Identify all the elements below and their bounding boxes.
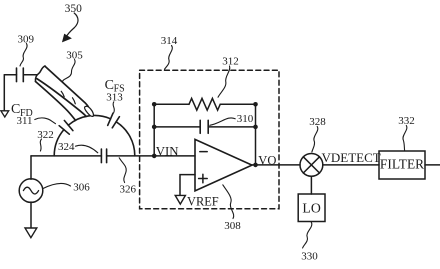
- leader 306: [43, 183, 71, 188]
- ground (open arrow) at left, node for C_FD: [1, 111, 9, 117]
- svg-text:328: 328: [309, 116, 326, 128]
- svg-text:305: 305: [66, 49, 83, 61]
- feedback left rail: [153, 104, 155, 156]
- svg-text:309: 309: [17, 34, 34, 46]
- svg-text:FILTER: FILTER: [380, 157, 424, 172]
- svg-text:VIN: VIN: [156, 144, 179, 158]
- wire main input line right segment: [107, 155, 195, 157]
- wire from AC source to ground: [30, 202, 32, 228]
- LO box 330: [298, 194, 325, 222]
- junction node, capacitor rail left: [152, 125, 157, 130]
- svg-text:306: 306: [73, 181, 90, 193]
- svg-text:C: C: [105, 78, 114, 93]
- svg-text:330: 330: [301, 251, 318, 263]
- junction node, resistor top-left: [152, 102, 157, 107]
- svg-text:VO: VO: [258, 154, 276, 168]
- svg-text:313: 313: [106, 92, 123, 104]
- wire op-amp output to mixer: [252, 164, 300, 166]
- leader 309: [20, 44, 27, 67]
- FILTER box 332: [379, 151, 425, 179]
- leader 313: [113, 102, 114, 113]
- resistor 312 top rail + zigzag: [154, 98, 255, 110]
- capacitor 324: [101, 149, 106, 163]
- finger 305: [35, 66, 93, 120]
- svg-text:LO: LO: [302, 201, 320, 216]
- op-amp 308: [195, 139, 252, 191]
- leader 308: [223, 185, 234, 219]
- leader 328: [312, 127, 318, 153]
- junction node VO: [253, 163, 258, 168]
- svg-text:308: 308: [224, 220, 241, 232]
- dashed box 314: [140, 70, 279, 209]
- wire FILTER to right edge: [425, 164, 440, 166]
- wire mixer to LO: [310, 176, 312, 194]
- leader 314: [165, 46, 173, 70]
- junction node VIN: [152, 154, 157, 159]
- svg-text:VREF: VREF: [187, 194, 219, 208]
- leader 332: [403, 126, 407, 151]
- ground (open arrow) below source: [25, 228, 37, 238]
- svg-text:332: 332: [398, 115, 415, 127]
- AC source 306: [19, 179, 43, 203]
- svg-text:VDETECT: VDETECT: [322, 150, 381, 165]
- svg-text:324: 324: [58, 141, 75, 153]
- wire from corner down to AC source: [30, 156, 32, 179]
- svg-text:310: 310: [237, 113, 254, 125]
- feedback right rail: [255, 104, 257, 165]
- capacitor C_FS 313 (plates on arc): [108, 113, 120, 128]
- wire mixer to FILTER: [323, 164, 379, 166]
- wire from capacitor 309 down to ground arrow: [3, 75, 5, 111]
- svg-text:326: 326: [119, 183, 136, 195]
- leader arrow 350: [63, 13, 78, 42]
- finger crease 1: [61, 91, 64, 97]
- finger crease 2: [73, 98, 76, 104]
- fingernail: [85, 106, 94, 116]
- leader 310: [210, 118, 235, 125]
- wire main input line left segment: [31, 155, 101, 157]
- svg-text:314: 314: [161, 35, 178, 47]
- capacitor 309: [4, 68, 37, 82]
- wire plus input to VREF: [180, 175, 195, 196]
- leader 322: [40, 139, 41, 151]
- leader 312: [218, 66, 230, 97]
- leader 311: [35, 118, 56, 124]
- leader 305: [63, 60, 76, 84]
- svg-text:311: 311: [16, 115, 32, 127]
- mixer 328: [300, 154, 323, 177]
- leader 324: [76, 145, 98, 153]
- leader 330: [303, 222, 312, 248]
- junction node, resistor top-right: [253, 102, 258, 107]
- electrode dome arc 322: [54, 115, 135, 155]
- capacitor 310 rail + plates: [154, 120, 255, 133]
- VREF ground symbol (open triangle): [175, 195, 185, 204]
- svg-text:322: 322: [37, 129, 54, 141]
- svg-text:350: 350: [65, 3, 83, 15]
- svg-text:312: 312: [222, 55, 239, 67]
- junction node, capacitor rail right: [253, 125, 258, 130]
- leader 326: [119, 158, 126, 183]
- capacitor C_FD 311 (plates on arc): [59, 121, 73, 135]
